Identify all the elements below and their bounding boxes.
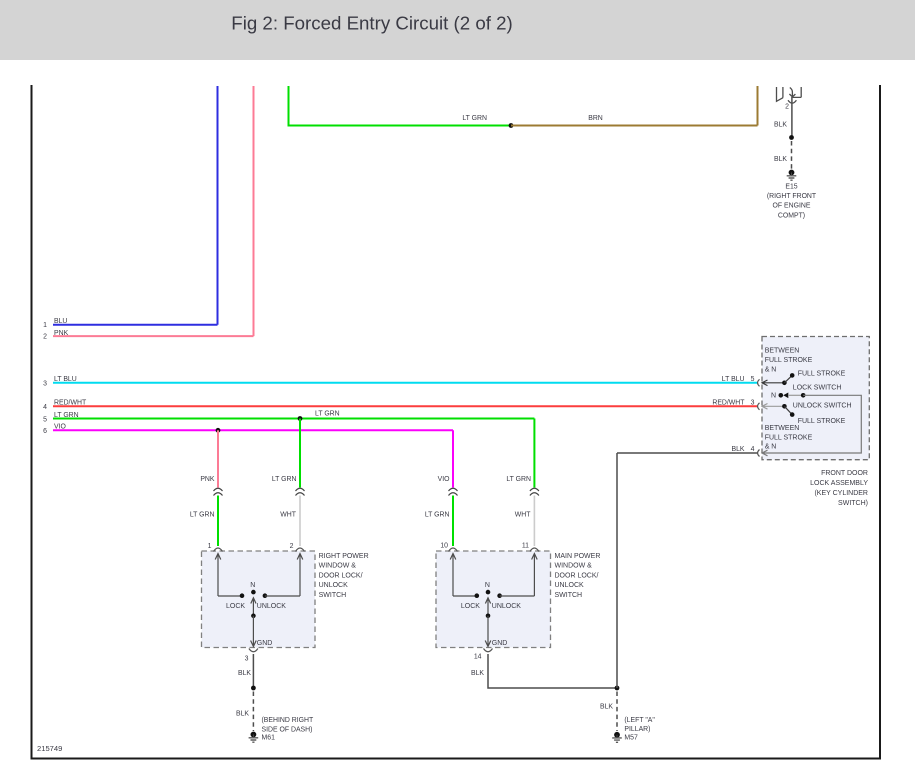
svg-text:3: 3	[751, 399, 755, 406]
junction dot BLK	[789, 135, 794, 140]
svg-text:Fig 2: Forced Entry Circuit (2: Fig 2: Forced Entry Circuit (2 of 2)	[231, 12, 512, 33]
svg-text:BLK: BLK	[471, 670, 484, 677]
unlock switch arm pin 3	[762, 403, 852, 425]
svg-text:M57: M57	[624, 735, 638, 742]
svg-text:SWITCH: SWITCH	[555, 592, 583, 599]
svg-text:PNK: PNK	[200, 476, 215, 483]
wire RED/WHT circuit 4	[43, 399, 757, 411]
svg-text:LOCK SWITCH: LOCK SWITCH	[793, 385, 842, 392]
main switch internal unlock path	[492, 554, 537, 611]
svg-text:WINDOW &: WINDOW &	[555, 563, 593, 570]
wire BLK dashed to ground M61	[236, 692, 253, 732]
pin 1 cup	[208, 543, 223, 552]
wire VIO circuit 6	[43, 424, 453, 488]
svg-text:1: 1	[43, 322, 47, 329]
svg-text:WHT: WHT	[280, 511, 296, 518]
right switch movable arm N	[250, 582, 256, 618]
wire LT BLU circuit 3	[43, 376, 757, 388]
wire BLK dashed to ground E15	[774, 141, 792, 169]
svg-text:(BEHIND RIGHT: (BEHIND RIGHT	[262, 717, 314, 724]
svg-text:& N: & N	[765, 443, 777, 450]
main switch internal lock path	[450, 554, 480, 611]
ground M57	[612, 717, 655, 742]
pin 2 cup	[290, 543, 305, 552]
svg-text:WINDOW &: WINDOW &	[319, 563, 357, 570]
svg-text:14: 14	[474, 654, 482, 661]
svg-text:RED/WHT: RED/WHT	[712, 399, 745, 406]
svg-text:(LEFT "A": (LEFT "A"	[624, 717, 655, 724]
svg-text:OF ENGINE: OF ENGINE	[773, 203, 811, 210]
wire BLK right switch to ground	[238, 654, 253, 688]
svg-text:N: N	[485, 582, 490, 589]
svg-text:WHT: WHT	[515, 511, 531, 518]
svg-text:UNLOCK SWITCH: UNLOCK SWITCH	[793, 403, 852, 410]
right switch internal lock path	[215, 554, 245, 611]
svg-text:(KEY CYLINDER: (KEY CYLINDER	[814, 490, 868, 497]
svg-text:BLK: BLK	[731, 446, 744, 453]
wire PNK circuit 2	[43, 86, 253, 340]
junction dot VIO/PNK	[216, 428, 221, 433]
svg-text:2: 2	[785, 104, 789, 111]
svg-text:BLK: BLK	[600, 704, 613, 711]
junction dot LT GRN/BRN	[509, 123, 514, 128]
svg-text:LT BLU: LT BLU	[722, 376, 745, 383]
ground M61	[249, 717, 314, 742]
svg-text:VIO: VIO	[438, 476, 451, 483]
header band	[0, 0, 915, 60]
svg-text:FRONT DOOR: FRONT DOOR	[821, 470, 868, 477]
svg-text:LT GRN: LT GRN	[272, 476, 297, 483]
main switch movable arm N	[485, 582, 491, 618]
svg-text:11: 11	[522, 543, 529, 550]
svg-text:SIDE OF DASH): SIDE OF DASH)	[262, 727, 313, 734]
wire LT GRN to pin 1	[190, 496, 218, 547]
svg-text:M61: M61	[262, 735, 276, 742]
svg-text:VIO: VIO	[54, 424, 67, 431]
svg-text:UNLOCK: UNLOCK	[319, 582, 349, 589]
svg-text:BLU: BLU	[54, 318, 67, 325]
splice marker pin10	[449, 488, 458, 495]
svg-text:PNK: PNK	[54, 330, 69, 337]
svg-text:4: 4	[43, 404, 47, 411]
pin 3 terminal	[758, 403, 760, 410]
N node lock assembly	[771, 393, 806, 400]
svg-text:FULL STROKE: FULL STROKE	[765, 357, 813, 364]
svg-text:FULL STROKE: FULL STROKE	[765, 435, 813, 442]
svg-text:N: N	[771, 393, 776, 400]
ground E15	[767, 170, 817, 220]
main switch GND exit pin 14	[474, 616, 508, 661]
junction dot M57 branch	[615, 686, 620, 691]
svg-text:SWITCH: SWITCH	[319, 592, 347, 599]
svg-text:RED/WHT: RED/WHT	[54, 400, 87, 407]
pin 10 cup	[440, 543, 457, 552]
svg-text:3: 3	[43, 381, 47, 388]
wire BLK from connector pin 2	[774, 97, 792, 138]
pin 4 terminal	[758, 450, 760, 457]
pin 5 terminal	[758, 379, 760, 386]
svg-text:6: 6	[43, 428, 47, 435]
splice marker pin11	[530, 488, 539, 495]
svg-text:LT GRN: LT GRN	[506, 476, 531, 483]
svg-text:LT GRN: LT GRN	[190, 511, 215, 518]
svg-text:LT GRN: LT GRN	[425, 511, 450, 518]
svg-text:PILLAR): PILLAR)	[624, 726, 650, 733]
wire BLU circuit 1	[43, 86, 217, 329]
svg-text:LOCK: LOCK	[461, 603, 480, 610]
svg-text:LT GRN: LT GRN	[54, 412, 79, 419]
pin 11 cup	[522, 543, 539, 552]
wire WHT to pin 2	[280, 496, 300, 547]
right power window switch box	[202, 551, 369, 648]
svg-text:BLK: BLK	[774, 156, 787, 163]
junction dot LT GRN row5	[298, 416, 303, 421]
front door lock assembly box	[762, 337, 869, 507]
svg-text:2: 2	[43, 333, 47, 340]
junction dot M61 branch	[251, 686, 256, 691]
svg-text:GND: GND	[257, 640, 273, 647]
svg-text:2: 2	[290, 543, 294, 550]
wire LT GRN drop to pin 2	[272, 419, 300, 488]
svg-text:& N: & N	[765, 367, 777, 374]
svg-text:MAIN POWER: MAIN POWER	[555, 553, 601, 560]
wire VIO drop to pin 10	[438, 476, 451, 483]
lock switch arm pin 5	[762, 370, 846, 391]
svg-text:UNLOCK: UNLOCK	[555, 582, 585, 589]
wire BLK dashed to ground M57	[600, 692, 617, 732]
svg-text:LOCK: LOCK	[226, 603, 245, 610]
svg-text:FULL STROKE: FULL STROKE	[798, 418, 846, 425]
svg-text:10: 10	[440, 543, 448, 550]
wire LT GRN circuit 5	[43, 410, 534, 487]
svg-text:N: N	[250, 582, 255, 589]
svg-text:BLK: BLK	[238, 670, 251, 677]
svg-text:4: 4	[751, 446, 755, 453]
wire PNK drop to pin 1	[200, 430, 218, 487]
right switch GND exit pin 3	[245, 616, 273, 663]
svg-text:3: 3	[245, 655, 249, 662]
inner solid path to pin 4	[762, 395, 861, 456]
svg-text:LOCK ASSEMBLY: LOCK ASSEMBLY	[810, 480, 868, 487]
svg-text:BETWEEN: BETWEEN	[765, 347, 800, 354]
wire WHT to pin 11	[515, 496, 535, 547]
svg-text:LT BLU: LT BLU	[54, 376, 77, 383]
splice marker pin2	[296, 488, 305, 495]
connector at top right, pin 2	[777, 87, 802, 111]
svg-text:COMPT): COMPT)	[778, 212, 805, 219]
svg-text:1: 1	[208, 543, 212, 550]
svg-text:BLK: BLK	[774, 122, 787, 129]
svg-text:BRN: BRN	[588, 115, 603, 122]
main power window switch box	[436, 551, 600, 648]
svg-text:GND: GND	[492, 640, 508, 647]
svg-text:UNLOCK: UNLOCK	[492, 603, 522, 610]
svg-text:LT GRN: LT GRN	[462, 115, 487, 122]
svg-text:E15: E15	[785, 184, 797, 191]
wire LT GRN top	[289, 86, 512, 126]
svg-text:215749: 215749	[37, 744, 62, 753]
svg-text:BETWEEN: BETWEEN	[765, 425, 800, 432]
svg-text:FULL STROKE: FULL STROKE	[798, 370, 846, 377]
wire BRN	[511, 86, 758, 126]
wire LT GRN to pin 10	[425, 496, 453, 547]
svg-text:5: 5	[751, 376, 755, 383]
svg-text:UNLOCK: UNLOCK	[257, 603, 287, 610]
wire BLK main switch to junction	[471, 654, 617, 688]
right switch internal unlock path	[257, 554, 303, 611]
splice marker pin1	[214, 488, 223, 495]
svg-text:LT GRN: LT GRN	[315, 410, 340, 417]
svg-text:SWITCH): SWITCH)	[838, 500, 868, 507]
wire BLK lock assembly pin 4 to junction	[617, 446, 758, 688]
svg-text:DOOR LOCK/: DOOR LOCK/	[319, 572, 363, 579]
svg-text:5: 5	[43, 416, 47, 423]
svg-text:(RIGHT FRONT: (RIGHT FRONT	[767, 193, 817, 200]
svg-text:BLK: BLK	[236, 711, 249, 718]
svg-text:DOOR LOCK/: DOOR LOCK/	[555, 572, 599, 579]
svg-text:RIGHT POWER: RIGHT POWER	[319, 553, 369, 560]
wire LT GRN drop to pin 11	[506, 476, 531, 483]
